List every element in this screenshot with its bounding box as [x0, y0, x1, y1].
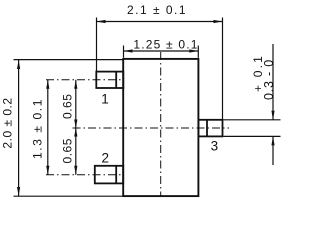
- svg-text:1: 1: [101, 92, 109, 107]
- svg-text:+ 0.1: + 0.1: [251, 54, 265, 92]
- extension line left of 2.1: [96, 18, 98, 72]
- dimension 2.1 +/- 0.1 label: [127, 3, 187, 17]
- svg-text:1.3 ± 0.1: 1.3 ± 0.1: [31, 98, 45, 159]
- pin 1 label: [101, 92, 109, 107]
- extension line top of 0.3: [224, 119, 281, 121]
- arrowhead left 2.1: [97, 20, 106, 23]
- arrowhead down 0.3: [271, 111, 274, 120]
- arrowhead right 1.25: [189, 49, 198, 52]
- dimension 0.3 +0.1/-0 label (rotated): [251, 54, 276, 100]
- dimension line 1.25: [124, 50, 199, 52]
- svg-text:0.65: 0.65: [61, 94, 75, 119]
- dimension 1.25 +/- 0.1 label: [133, 38, 198, 52]
- svg-text:2.0 ± 0.2: 2.0 ± 0.2: [1, 97, 15, 148]
- pin 3 label: [211, 139, 219, 154]
- arrowhead bottom 1.3: [46, 166, 49, 175]
- pin 2 centerline: [46, 174, 123, 176]
- arrowhead left 1.25: [124, 49, 133, 52]
- svg-text:2: 2: [101, 151, 109, 166]
- arrowhead right 2.1: [214, 20, 223, 23]
- arrowhead mid-up 0.65: [74, 128, 77, 137]
- pin 1 centerline: [46, 79, 123, 81]
- dimension line 2.1: [97, 21, 223, 23]
- extension line right of 2.1: [222, 18, 224, 120]
- dimension 0.65 upper label (rotated): [61, 94, 75, 119]
- extension line bottom of 2.0: [14, 195, 124, 197]
- arrowhead bottom 2.0: [17, 187, 20, 196]
- pin 1: [96, 72, 123, 88]
- arrowhead mid-down 0.65: [74, 120, 77, 129]
- dimension 0.65 lower label (rotated): [61, 138, 75, 163]
- dimension 2.0 +/- 0.2 label (rotated): [1, 97, 15, 148]
- svg-text:0.65: 0.65: [61, 138, 75, 163]
- extension line right of 1.25: [197, 46, 199, 58]
- body horizontal centerline: [73, 127, 230, 129]
- body vertical centerline: [160, 52, 162, 196]
- svg-text:3: 3: [211, 139, 219, 154]
- dimension line 0.3 upper: [272, 44, 274, 120]
- arrowhead top 0.65: [74, 80, 77, 89]
- extension line top of 2.0: [14, 59, 124, 61]
- dimension 1.3 +/- 0.1 label (rotated): [31, 98, 45, 159]
- pin 2 inner line: [115, 166, 117, 184]
- pin 2: [95, 166, 123, 184]
- arrowhead up 0.3: [271, 136, 274, 145]
- pin 3: [198, 120, 222, 137]
- dimension line 1.3: [47, 80, 49, 175]
- arrowhead top 1.3: [46, 80, 49, 89]
- pin 3 inner line: [206, 120, 208, 137]
- body outline: [123, 59, 198, 196]
- dimension line 2.0: [18, 60, 20, 196]
- dimension line 0.3 lower: [272, 136, 274, 165]
- dimension line 0.65: [75, 80, 77, 175]
- pin 2 label: [101, 151, 109, 166]
- extension line left of 1.25: [123, 46, 125, 58]
- svg-text:1.25 ± 0.1: 1.25 ± 0.1: [133, 38, 198, 52]
- pin 1 inner line: [115, 72, 117, 88]
- arrowhead bottom 0.65: [74, 166, 77, 175]
- arrowhead top 2.0: [17, 60, 20, 69]
- svg-text:2.1 ± 0.1: 2.1 ± 0.1: [127, 3, 187, 17]
- extension line bottom of 0.3: [224, 135, 281, 137]
